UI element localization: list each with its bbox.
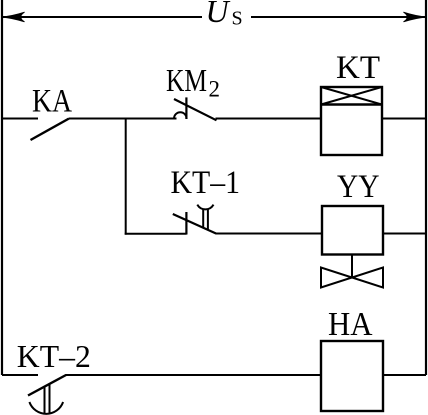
- rung 2 wire: YY coil to right rail: [383, 233, 426, 235]
- contact KM2 blade: [174, 99, 217, 120]
- valve stem: [351, 255, 353, 279]
- svg-text:KA: KA: [32, 84, 72, 120]
- solenoid valve coil YY box: [322, 206, 383, 255]
- rung 1 wire: KT coil to right rail: [382, 118, 426, 120]
- coil KT X diagonal 1: [321, 87, 382, 105]
- contact KT-2 blade: [28, 375, 66, 396]
- svg-text:KT–2: KT–2: [17, 338, 91, 374]
- svg-text:HA: HA: [328, 306, 373, 343]
- contact KT-2 delay leg left: [44, 387, 46, 414]
- contact KA blade: [31, 119, 70, 141]
- rung 3 wire: rail to KT-2: [2, 374, 38, 376]
- alarm HA box: [321, 341, 383, 411]
- svg-text:KT: KT: [336, 50, 380, 86]
- dimension line left segment: [3, 16, 202, 18]
- rung 3 wire: HA to right rail: [383, 374, 426, 376]
- contact KT-1 vertical bar: [185, 212, 187, 235]
- valve right triangle: [352, 268, 383, 288]
- contact KM2 semicircle: [174, 112, 187, 118]
- contact KT-1 delay cup arc: [197, 205, 213, 210]
- rung 2 wire: branch to KT-1: [125, 233, 187, 235]
- rung 1 wire: KA to KM2: [69, 118, 177, 120]
- rung 1 wire: KM2 to KT coil: [216, 118, 322, 120]
- rung 3 wire: KT-2 to HA: [66, 374, 322, 376]
- dimension line right segment: [251, 16, 425, 18]
- contact KT-1 delay leg right: [207, 210, 209, 230]
- coil KT X diagonal 2: [321, 87, 382, 105]
- svg-text:S: S: [232, 8, 243, 30]
- time relay coil KT box: [321, 87, 382, 155]
- left power rail: [1, 0, 3, 375]
- right power rail: [425, 0, 427, 375]
- svg-text:KM: KM: [166, 63, 207, 98]
- contact KT-2 delay cup arc: [29, 402, 63, 414]
- svg-text:YY: YY: [337, 169, 380, 205]
- valve left triangle: [321, 268, 352, 288]
- rung 1 wire: rail to KA: [2, 118, 38, 120]
- rung 2 wire: KT-1 to YY coil: [216, 233, 323, 235]
- contact KT-1 delay leg left: [202, 210, 204, 228]
- contact KT-2 delay leg right: [49, 384, 51, 414]
- right arrowhead: [404, 12, 427, 22]
- svg-text:U: U: [206, 0, 231, 29]
- coil KT divider: [321, 103, 382, 105]
- contact KT-1 blade: [173, 214, 216, 234]
- contact KM2 vertical bar: [185, 97, 187, 119]
- svg-text:2: 2: [209, 77, 221, 102]
- branch wire node to rung 2: [125, 118, 127, 235]
- left arrowhead: [2, 12, 25, 22]
- svg-text:KT–1: KT–1: [171, 165, 241, 201]
